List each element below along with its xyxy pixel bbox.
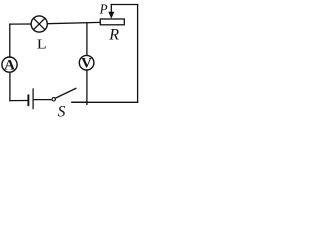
wire top-left horizontal xyxy=(10,23,31,25)
wire voltmeter stem top xyxy=(86,23,88,56)
wire left rail lower xyxy=(9,72,11,100)
rheostat R body xyxy=(100,19,124,25)
rheostat slider arrowhead xyxy=(108,12,114,19)
battery BT1 positive plate xyxy=(32,89,34,109)
ammeter U1 circle xyxy=(2,57,17,72)
wire bottom right horizontal xyxy=(72,101,138,103)
node junction V bottom xyxy=(86,102,88,104)
lamp L1 cross xyxy=(34,18,45,29)
wire switch to bottom rail xyxy=(72,101,87,103)
svg-text:P: P xyxy=(99,1,108,17)
wire right rail vertical xyxy=(137,5,139,103)
label P slider xyxy=(99,1,108,17)
wire left rail upper xyxy=(9,24,11,57)
svg-text:R: R xyxy=(108,26,119,43)
wire lamp to rheostat xyxy=(47,22,100,23)
svg-text:V: V xyxy=(81,56,92,72)
wire slider to right rail xyxy=(111,4,137,6)
wire voltmeter stem bottom xyxy=(86,70,88,102)
svg-text:L: L xyxy=(37,38,47,53)
rheostat slider arrow stem xyxy=(110,5,112,12)
svg-text:S: S xyxy=(58,104,66,121)
label L lamp xyxy=(37,38,47,53)
switch S lever xyxy=(55,88,75,98)
voltmeter U2 circle xyxy=(79,55,94,70)
lamp L1 circle xyxy=(31,16,47,32)
battery BT1 negative plate xyxy=(27,95,29,105)
switch S pivot xyxy=(52,98,55,101)
svg-text:A: A xyxy=(4,58,15,74)
wire bottom left horizontal xyxy=(10,100,28,102)
wire battery to switch xyxy=(34,99,52,101)
